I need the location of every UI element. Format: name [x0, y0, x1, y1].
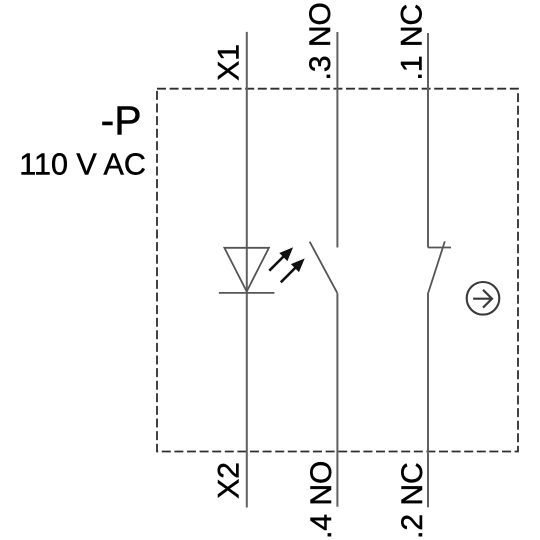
wire .2 NC (lower segment of NC branch)	[427, 292, 429, 507]
dashed enclosure border of device -P	[157, 89, 518, 452]
actuator symbol circle	[467, 282, 500, 315]
wire .1 NC (upper segment of NC branch)	[427, 33, 429, 248]
wire X1 to X2 (lamp branch vertical)	[246, 32, 248, 508]
wire .4 NO (lower segment of NO branch)	[336, 293, 338, 507]
NC contact seat (horizontal stop)	[428, 247, 451, 249]
svg-text:.3 NO: .3 NO	[304, 2, 337, 80]
LED emission arrow 1	[269, 248, 292, 271]
actuator arrow shaft	[473, 298, 492, 300]
svg-text:-P: -P	[101, 98, 142, 144]
actuator arrow chevron	[483, 290, 492, 308]
wire .3 NO (upper segment of NO branch)	[336, 32, 338, 248]
NO contact moving blade	[310, 242, 338, 293]
svg-text:X1: X1	[213, 44, 246, 81]
svg-text:.1 NC: .1 NC	[395, 4, 428, 81]
svg-text:X2: X2	[213, 462, 246, 499]
svg-text:110 V AC: 110 V AC	[19, 148, 146, 182]
NC contact moving blade	[428, 241, 444, 292]
LED cathode bar	[219, 292, 275, 294]
svg-text:.2 NC: .2 NC	[396, 462, 429, 539]
LED lamp triangle	[224, 248, 269, 292]
svg-text:.4 NO: .4 NO	[305, 461, 338, 539]
LED emission arrow 2	[281, 259, 304, 282]
